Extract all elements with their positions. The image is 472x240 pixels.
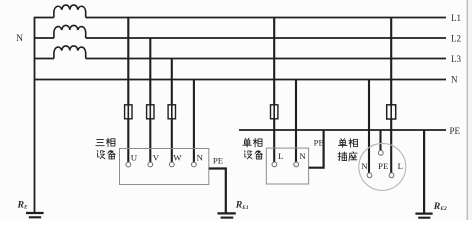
page border line (right, gray) (466, 0, 468, 220)
svg-text:W: W (173, 152, 182, 162)
svg-text:L: L (398, 161, 403, 171)
fuse FU1 (U phase) (125, 105, 132, 119)
terminal U (126, 162, 131, 167)
terminal N (294, 162, 299, 167)
svg-text:N: N (299, 151, 306, 161)
wire: N drop from neutral bus to single-phase equipment (295, 80, 297, 163)
wire: PE tap from PE bus to single-phase box (309, 130, 324, 168)
wire: PE from three-phase box to earth (209, 169, 226, 213)
wire: L1 phase bus (35, 17, 447, 19)
transformer winding L1 (coil) (54, 5, 86, 17)
svg-text:N: N (451, 75, 458, 85)
wire: transformer neutral / earthing conductor (vertical bus) (34, 17, 36, 213)
svg-text:L: L (278, 151, 283, 161)
wire: V drop from L2 (149, 38, 151, 162)
fuse FU2 (V phase) (147, 105, 154, 119)
ground: transformer neutral earth electrode (26, 213, 44, 217)
svg-text:PE: PE (378, 161, 388, 171)
wire: L2 phase bus (35, 37, 447, 39)
wire: L drop from L1 to single-phase equipment (273, 18, 275, 163)
fuse FU5 (socket L) (387, 105, 396, 119)
socket terminal N (367, 173, 372, 178)
page right margin strip (468, 0, 472, 220)
svg-text:U: U (131, 152, 138, 162)
terminal N (192, 162, 197, 167)
svg-text:L2: L2 (451, 34, 461, 44)
svg-text:N: N (16, 34, 23, 44)
wire: L drop from L1 to socket (390, 18, 392, 173)
three-phase equipment box (三相设备) (120, 149, 209, 185)
fuse FU3 (W phase) (168, 105, 175, 119)
terminal W (169, 162, 174, 167)
wire: N drop from neutral bus (193, 80, 195, 163)
label 单相设备 (243, 138, 263, 159)
wire: PE bus to earth electrode (right) (423, 130, 425, 213)
wire: N drop from neutral bus to socket (368, 80, 370, 173)
svg-text:PE: PE (450, 126, 461, 136)
svg-text:V: V (153, 152, 160, 162)
svg-text:N: N (197, 152, 204, 162)
socket terminal L (389, 173, 394, 178)
wire: W drop from L3 (171, 59, 173, 163)
ground: earth electrode RE1 (three-phase equipment) (217, 213, 235, 217)
wire: PE drop from PE bus to socket (379, 130, 381, 150)
wire: PE protective earth bus (239, 129, 446, 131)
label 单相插座 (338, 139, 358, 161)
transformer winding L3 (coil) (54, 46, 86, 59)
transformer winding L2 (coil) (54, 25, 86, 38)
svg-text:L3: L3 (451, 54, 461, 64)
socket terminal PE (378, 150, 383, 155)
fuse FU4 (single-phase equipment L) (271, 105, 278, 119)
svg-text:PE: PE (314, 137, 324, 147)
terminal L (272, 162, 277, 167)
wire: N neutral bus (35, 79, 447, 81)
single-phase equipment box (单相设备) (266, 148, 308, 184)
wire: L3 phase bus (35, 58, 447, 60)
ground: earth electrode RE2 (socket circuit) (415, 214, 432, 218)
wire: U drop from L1 to three-phase load (127, 18, 129, 163)
terminal V (148, 162, 153, 167)
svg-text:PE: PE (213, 156, 223, 166)
svg-text:L1: L1 (451, 13, 461, 23)
label 三相设备 (96, 138, 115, 159)
svg-text:N: N (361, 161, 368, 171)
single-phase socket outline (单相插座) (359, 143, 406, 190)
